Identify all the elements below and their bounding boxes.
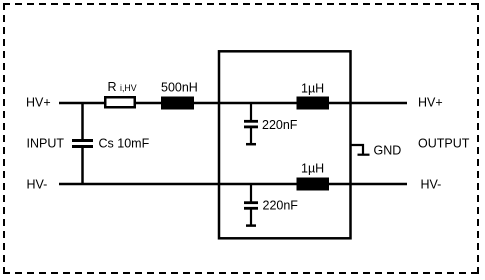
svg-text:500nH: 500nH <box>161 81 198 95</box>
wire 500nH to L1 <box>194 102 297 105</box>
svg-text:R i,HV: R i,HV <box>108 80 137 94</box>
wire C2 branch <box>250 184 252 202</box>
wire resistor to 500nH <box>136 102 162 105</box>
capacitor Cs 10mF <box>72 141 93 147</box>
wire L2 to HV- output <box>329 183 407 186</box>
wire C1 branch <box>250 103 252 121</box>
inductor L2 1uH <box>297 178 330 191</box>
wire L1 to HV+ output <box>329 102 407 105</box>
wire Cs bottom branch <box>81 147 84 184</box>
inductor 500nH <box>161 97 194 110</box>
svg-text:OUTPUT: OUTPUT <box>418 136 470 150</box>
wire HV+ input <box>59 102 105 105</box>
inductor L1 1uH <box>297 97 330 110</box>
filter module box <box>219 51 351 238</box>
chassis terminal C1 <box>246 143 256 146</box>
wire Cs top branch <box>81 103 84 140</box>
svg-text:220nF: 220nF <box>262 118 298 132</box>
svg-text:HV-: HV- <box>27 177 48 191</box>
svg-text:Cs 10mF: Cs 10mF <box>99 137 150 151</box>
svg-text:1µH: 1µH <box>301 161 324 175</box>
resistor R i,HV <box>105 97 135 107</box>
capacitor C2 220nF <box>244 203 258 209</box>
wire HV- input <box>59 183 297 186</box>
capacitor C1 220nF <box>244 121 258 127</box>
wire C1 to chassis <box>250 128 252 145</box>
svg-text:220nF: 220nF <box>263 199 299 213</box>
svg-text:GND: GND <box>374 144 402 158</box>
chassis terminal C2 <box>246 224 256 227</box>
svg-text:INPUT: INPUT <box>27 136 65 150</box>
svg-text:HV+: HV+ <box>418 95 443 109</box>
svg-text:1µH: 1µH <box>301 82 324 96</box>
svg-text:HV+: HV+ <box>26 95 51 109</box>
svg-text:HV-: HV- <box>421 177 442 191</box>
ground <box>351 145 370 155</box>
wire C2 to chassis <box>250 209 252 226</box>
